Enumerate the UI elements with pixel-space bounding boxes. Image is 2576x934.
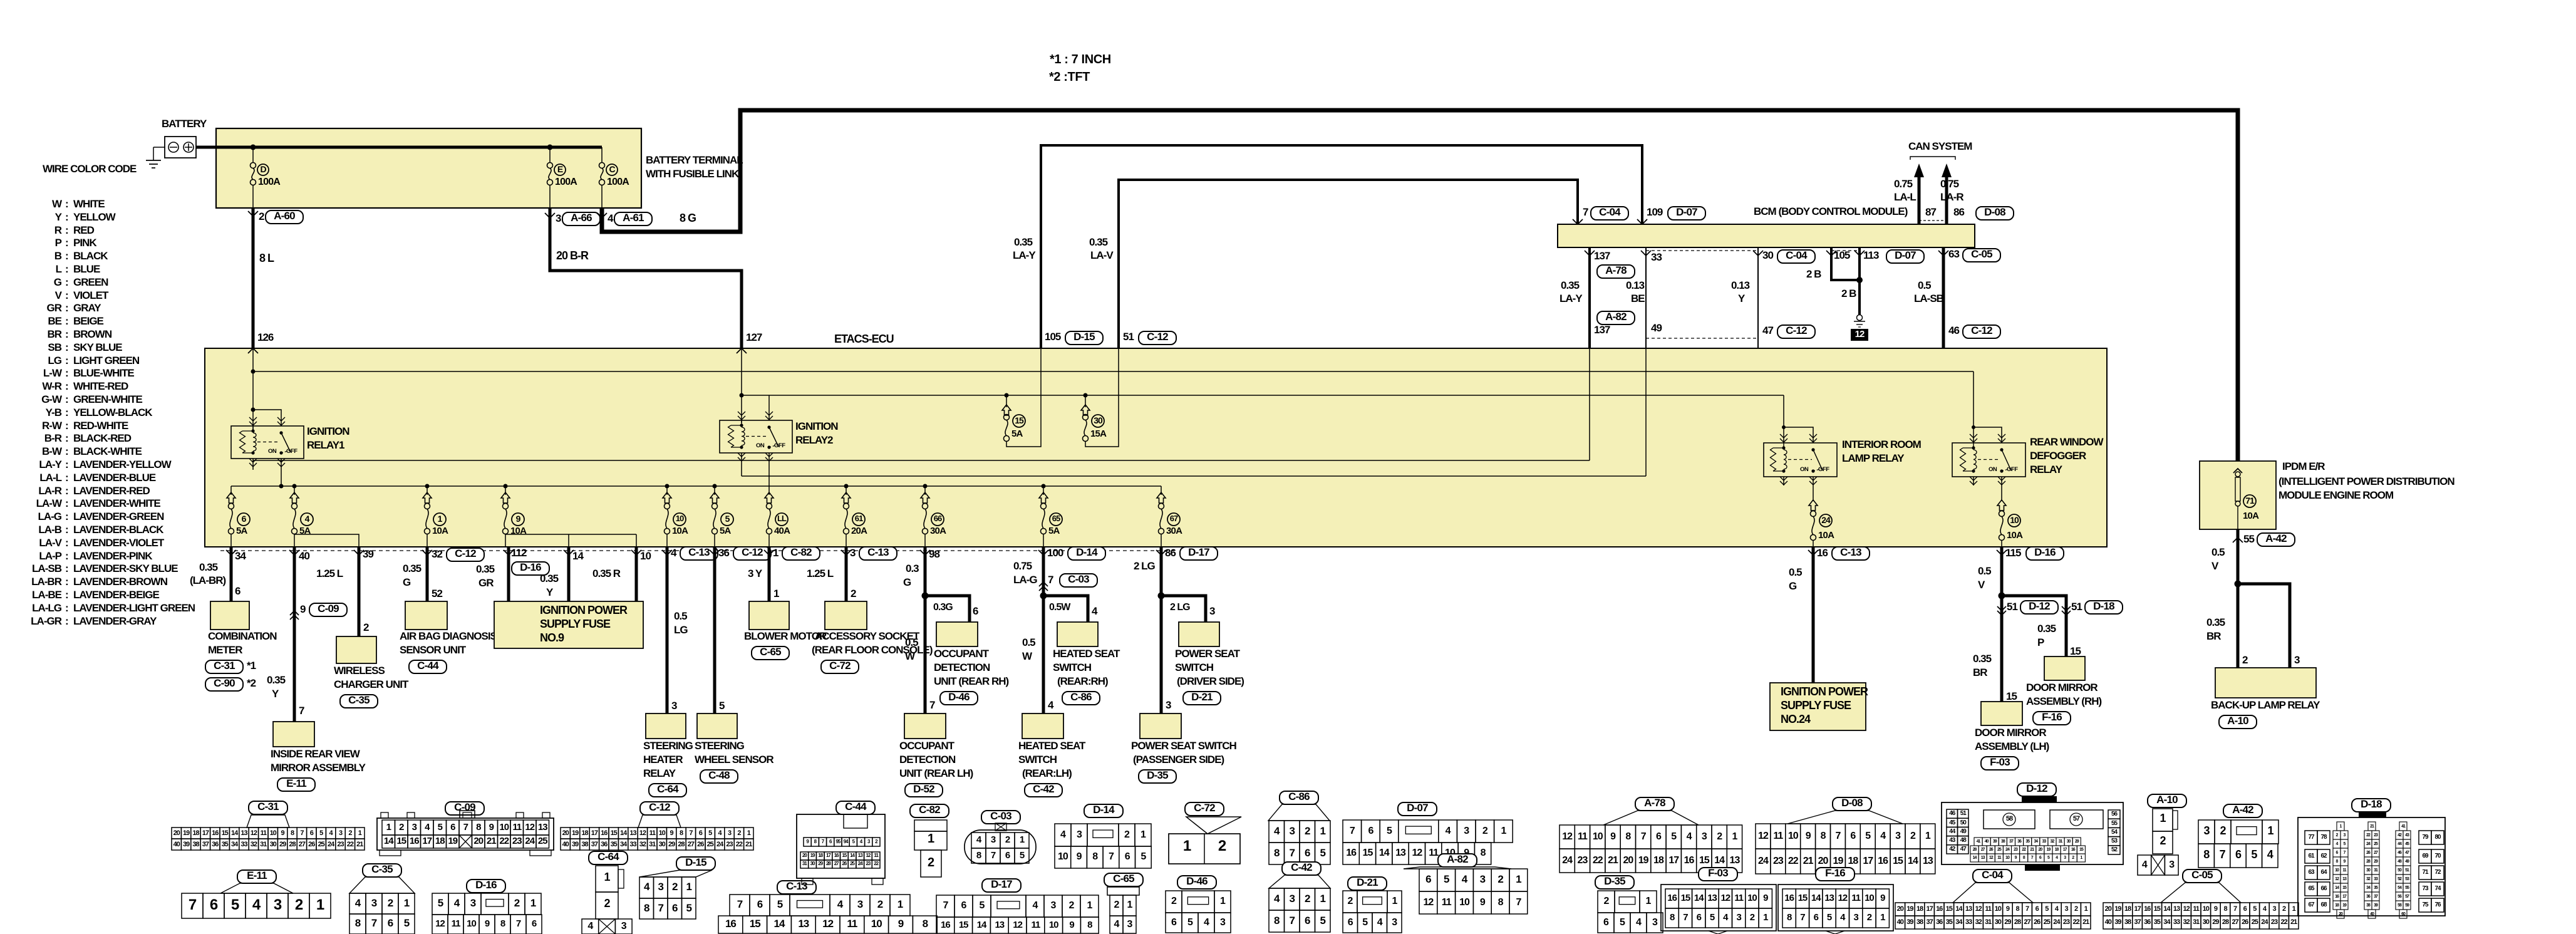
svg-text:C-72: C-72: [829, 660, 851, 672]
steering wheel sensor: [697, 713, 737, 739]
svg-text:D-16: D-16: [2034, 546, 2056, 558]
svg-text:SB: SB: [48, 341, 61, 353]
fuse 61 20A: [846, 486, 847, 495]
pin 105 D-15: [1036, 348, 1046, 353]
svg-text:9: 9: [1763, 893, 1768, 903]
svg-text:51: 51: [1123, 331, 1134, 343]
wire 0.35 LA-V 51 to 7: [1119, 180, 1578, 348]
svg-text:26: 26: [2242, 918, 2248, 926]
ETACS pin 34: [226, 550, 236, 555]
BCM pin 137 wire 0.35 LA-Y to ETACS: [1588, 247, 1591, 348]
svg-text:1: 1: [773, 588, 779, 599]
svg-text:8: 8: [680, 829, 683, 837]
svg-text:ON: ON: [268, 448, 277, 455]
wireless charger unit: [336, 636, 376, 663]
svg-text::: :: [65, 341, 68, 353]
svg-text:LAVENDER-YELLOW: LAVENDER-YELLOW: [73, 459, 172, 470]
svg-text:POWER SEAT: POWER SEAT: [1175, 648, 1241, 660]
pin 2 A-60: [248, 211, 258, 216]
svg-text:BE: BE: [1631, 293, 1645, 304]
fuse 6 5A: [230, 486, 232, 495]
svg-text:40: 40: [2105, 918, 2112, 926]
svg-text:GRAY: GRAY: [73, 302, 101, 314]
svg-text:NO.9: NO.9: [540, 631, 564, 644]
svg-text:LAMP RELAY: LAMP RELAY: [1842, 452, 1905, 464]
svg-text:20 B-R: 20 B-R: [556, 249, 589, 262]
connector boundary dashed line: [220, 550, 1174, 551]
svg-text:MODULE ENGINE ROOM: MODULE ENGINE ROOM: [2279, 489, 2394, 501]
svg-text:LA-B: LA-B: [38, 524, 61, 536]
svg-text:8: 8: [1498, 897, 1504, 908]
svg-text:9: 9: [281, 829, 285, 837]
pin 3 A-66: [545, 213, 555, 218]
svg-text:6: 6: [1656, 831, 1662, 842]
svg-text:3: 3: [1652, 917, 1658, 928]
svg-text:15: 15: [2006, 690, 2017, 702]
svg-text:4: 4: [1114, 919, 1120, 930]
svg-text:3: 3: [1166, 699, 1171, 711]
svg-text:ACCESSORY SOCKET: ACCESSORY SOCKET: [815, 630, 920, 642]
svg-text:16: 16: [601, 829, 608, 837]
svg-text:2: 2: [295, 896, 303, 913]
svg-text:12: 12: [822, 918, 833, 930]
svg-text:23: 23: [2271, 918, 2278, 926]
svg-text:23: 23: [726, 841, 733, 848]
ETACS pin 36: [710, 550, 720, 555]
svg-text:BCM (BODY CONTROL MODULE): BCM (BODY CONTROL MODULE): [1754, 205, 1908, 217]
svg-text:6: 6: [1125, 851, 1130, 862]
svg-text:2: 2: [1114, 900, 1120, 910]
relay2 switch feed: [768, 395, 770, 420]
svg-text:CHARGER UNIT: CHARGER UNIT: [334, 678, 409, 690]
svg-text:D-07: D-07: [1895, 249, 1916, 261]
ETACS pin 39: [354, 550, 364, 555]
ground at battery: [153, 147, 165, 148]
svg-text:10A: 10A: [672, 526, 688, 536]
svg-text:V: V: [2211, 560, 2219, 572]
svg-text:10: 10: [1593, 831, 1603, 842]
pin 126: [248, 348, 258, 353]
svg-text:0.13: 0.13: [1626, 279, 1645, 291]
svg-text:32: 32: [2183, 918, 2190, 926]
svg-text:W: W: [52, 198, 63, 210]
svg-text:3: 3: [1392, 917, 1397, 928]
relay2 coil stub to R3b: [741, 453, 742, 476]
svg-text:D-12: D-12: [2026, 782, 2047, 794]
svg-text:27: 27: [299, 841, 306, 848]
svg-text:P: P: [2037, 636, 2044, 648]
svg-text:7: 7: [737, 898, 743, 910]
svg-text:2: 2: [2074, 905, 2078, 913]
svg-text:LA-G: LA-G: [38, 511, 61, 522]
svg-text:6: 6: [1697, 912, 1702, 923]
svg-text:LA-R: LA-R: [1940, 191, 1963, 203]
svg-text:2: 2: [1604, 896, 1610, 906]
svg-text:0.35: 0.35: [1014, 236, 1033, 248]
wire 0.5 G ignition power supply fuse no 24: [1812, 547, 1815, 683]
svg-text:3: 3: [1220, 917, 1226, 928]
svg-text:COMBINATION: COMBINATION: [208, 630, 277, 642]
ground 12: [1857, 315, 1863, 321]
svg-text:55: 55: [2111, 820, 2118, 827]
svg-text:21: 21: [2082, 918, 2089, 926]
svg-text:1: 1: [1516, 873, 1521, 885]
connector C-42 pin diagram: [1282, 862, 1321, 875]
svg-text:LA-SB: LA-SB: [1914, 293, 1944, 304]
svg-text:6: 6: [235, 585, 241, 597]
ETACS pin 86: [1156, 550, 1166, 555]
wire 0.3 G occupant detection: [924, 547, 927, 713]
fuse 67 30A: [1161, 486, 1162, 495]
svg-text:13: 13: [629, 829, 636, 837]
svg-text:14: 14: [1379, 848, 1390, 858]
svg-text:2: 2: [1171, 896, 1177, 906]
wire 0.35 Y to inside rear view mirror: [293, 547, 296, 722]
svg-text:19: 19: [572, 829, 579, 837]
svg-text:27: 27: [2024, 918, 2030, 926]
fuse LL 40A: [768, 486, 770, 495]
svg-text:C-90: C-90: [214, 677, 235, 689]
svg-text:BLUE: BLUE: [73, 263, 100, 275]
svg-text:38: 38: [192, 841, 199, 848]
svg-text:31: 31: [649, 841, 656, 848]
svg-text:53: 53: [2111, 838, 2118, 844]
svg-text:1: 1: [1087, 900, 1093, 911]
svg-text:37: 37: [202, 841, 209, 848]
svg-text:STEERING: STEERING: [643, 740, 693, 752]
svg-text:58: 58: [2006, 815, 2013, 822]
svg-text:RELAY1: RELAY1: [307, 439, 344, 451]
svg-text:D-46: D-46: [948, 691, 970, 703]
svg-text:30: 30: [270, 841, 277, 848]
svg-text:17: 17: [2134, 905, 2141, 913]
svg-text:42: 42: [1949, 846, 1956, 853]
svg-text:1: 1: [1732, 831, 1737, 842]
svg-text:OCCUPANT: OCCUPANT: [899, 740, 955, 752]
svg-text:36: 36: [718, 547, 729, 559]
svg-text:LA-LG: LA-LG: [32, 602, 62, 614]
svg-text:2: 2: [1750, 912, 1755, 923]
svg-text:6: 6: [1814, 912, 1819, 923]
svg-text:8: 8: [500, 918, 505, 929]
svg-text:20: 20: [473, 836, 483, 846]
svg-text:WHITE-RED: WHITE-RED: [73, 380, 128, 392]
svg-text:86: 86: [1953, 206, 1964, 218]
svg-text:D-07: D-07: [1407, 802, 1428, 814]
battery terminal yellow box: [216, 128, 641, 208]
svg-text:22: 22: [2072, 918, 2079, 926]
svg-text:6: 6: [1005, 850, 1010, 861]
svg-text:C-12: C-12: [649, 801, 670, 813]
svg-text:1: 1: [316, 896, 324, 913]
svg-text:8: 8: [1670, 912, 1675, 923]
svg-text:8: 8: [923, 918, 928, 930]
svg-text:63: 63: [2308, 869, 2315, 876]
svg-text:Y: Y: [1738, 293, 1746, 304]
svg-text:18: 18: [1848, 856, 1858, 866]
svg-text:SWITCH: SWITCH: [1018, 754, 1057, 765]
svg-text:LA-GR: LA-GR: [31, 615, 62, 627]
svg-text:INTERIOR ROOM: INTERIOR ROOM: [1842, 438, 1922, 450]
svg-text:7: 7: [1290, 915, 1295, 926]
BCM body control module box: [1558, 224, 1975, 247]
svg-text:64: 64: [2320, 869, 2327, 876]
svg-text:11: 11: [1734, 893, 1744, 903]
connector D-15 pin diagram: [676, 857, 715, 870]
svg-text:1: 1: [386, 822, 391, 833]
svg-text::: :: [65, 485, 68, 497]
svg-text::: :: [65, 211, 68, 223]
svg-text:1: 1: [2267, 824, 2273, 837]
svg-text:A-66: A-66: [571, 212, 592, 224]
svg-text:1: 1: [686, 881, 692, 893]
svg-text::: :: [65, 472, 68, 484]
svg-text:32: 32: [1975, 918, 1982, 926]
svg-text:30: 30: [1995, 918, 2002, 926]
svg-text:IGNITION: IGNITION: [307, 425, 349, 437]
svg-text:14: 14: [1714, 855, 1725, 866]
svg-text:2: 2: [2220, 824, 2226, 837]
door mirror assembly RH: [2044, 656, 2085, 680]
svg-text::: :: [65, 224, 68, 236]
svg-text:1: 1: [773, 547, 778, 559]
svg-text::: :: [65, 315, 68, 327]
svg-text:7: 7: [689, 829, 693, 837]
svg-text:9: 9: [1480, 897, 1486, 908]
svg-text:34: 34: [235, 550, 246, 562]
svg-text:B: B: [54, 250, 62, 262]
connector A-42 pin diagram: [2223, 804, 2262, 817]
ignition relay1: [231, 426, 304, 459]
svg-text:1: 1: [530, 897, 536, 909]
svg-text:13: 13: [995, 920, 1004, 930]
svg-text:D-46: D-46: [1186, 875, 1208, 887]
svg-text:2: 2: [348, 829, 352, 837]
svg-text:3: 3: [1290, 893, 1295, 905]
svg-text:RELAY2: RELAY2: [795, 434, 833, 446]
connector D-46 pin diagram: [1177, 876, 1216, 889]
svg-text:D-08: D-08: [1841, 797, 1863, 809]
svg-text::: :: [65, 237, 68, 249]
svg-text:D-35: D-35: [1604, 875, 1625, 887]
svg-text:3: 3: [2294, 654, 2300, 666]
fuse 71 10A in IPDM: [2235, 472, 2240, 477]
svg-text:8 L: 8 L: [259, 252, 274, 264]
wire 0.35 LA-Y 105 to 109: [1041, 145, 1642, 348]
svg-text:F-03: F-03: [1990, 756, 2010, 768]
svg-text:7: 7: [2220, 848, 2226, 861]
svg-text:A-78: A-78: [1605, 264, 1627, 276]
svg-text::: :: [65, 615, 68, 627]
svg-text:0.5: 0.5: [2211, 546, 2225, 558]
connector C-64 pin diagram: [589, 851, 628, 864]
svg-text:15: 15: [1946, 905, 1953, 913]
svg-text:15: 15: [750, 918, 760, 930]
connector F-03 pin diagram: [1699, 868, 1737, 881]
svg-text:(PASSENGER SIDE): (PASSENGER SIDE): [1133, 754, 1224, 765]
svg-text:50: 50: [1960, 819, 1967, 826]
svg-text:6: 6: [1603, 917, 1609, 928]
svg-text:3 Y: 3 Y: [748, 568, 763, 579]
svg-text:3: 3: [728, 829, 732, 837]
svg-text:IGNITION POWER: IGNITION POWER: [540, 604, 628, 616]
svg-text:61: 61: [855, 514, 863, 523]
svg-text:8: 8: [1625, 831, 1631, 842]
svg-text:26: 26: [308, 841, 315, 848]
svg-text:5: 5: [404, 917, 410, 929]
svg-text:D-07: D-07: [1676, 206, 1697, 218]
svg-text:10: 10: [640, 550, 651, 562]
svg-text:4: 4: [1033, 900, 1038, 911]
svg-text:3: 3: [371, 897, 377, 909]
svg-text:3: 3: [2064, 905, 2068, 913]
svg-text:1: 1: [1501, 826, 1506, 836]
svg-text:A-82: A-82: [1605, 311, 1627, 323]
svg-text:15: 15: [222, 829, 229, 837]
svg-text:22: 22: [1593, 855, 1603, 866]
svg-text:38: 38: [581, 841, 588, 848]
svg-text:10: 10: [1049, 920, 1058, 930]
svg-text:2: 2: [1005, 834, 1010, 845]
svg-text:24: 24: [1562, 855, 1573, 866]
fuse 9 sub-branch to pins 14 10: [505, 534, 636, 535]
svg-text:76: 76: [2434, 901, 2441, 908]
svg-text:RED: RED: [73, 224, 95, 236]
svg-text:LA-Y: LA-Y: [1013, 249, 1036, 261]
svg-text:16: 16: [725, 918, 736, 930]
svg-text:3: 3: [1702, 831, 1707, 842]
svg-text:15: 15: [1363, 848, 1373, 858]
svg-text::: :: [65, 393, 68, 405]
wire 2 LG power seat: [1160, 547, 1163, 713]
svg-text:2: 2: [1069, 900, 1075, 911]
svg-text:6: 6: [699, 829, 703, 837]
svg-text:10: 10: [871, 918, 882, 930]
svg-text:C-35: C-35: [348, 694, 370, 706]
svg-text:D-14: D-14: [1076, 546, 1098, 558]
svg-text:1: 1: [2084, 905, 2088, 913]
svg-text:11: 11: [2193, 905, 2200, 913]
svg-text:9: 9: [489, 822, 494, 833]
svg-text:69: 69: [2422, 853, 2429, 859]
svg-text:10: 10: [270, 829, 277, 837]
svg-text:14: 14: [384, 836, 394, 846]
svg-text:4: 4: [1060, 829, 1066, 840]
svg-text:7: 7: [516, 918, 521, 929]
svg-text:WHITE: WHITE: [73, 198, 105, 210]
svg-text:POWER SEAT SWITCH: POWER SEAT SWITCH: [1131, 740, 1237, 752]
svg-text:7: 7: [1800, 912, 1805, 923]
svg-text:6: 6: [1305, 847, 1310, 859]
svg-text:29: 29: [279, 841, 286, 848]
svg-text:C-44: C-44: [845, 801, 867, 812]
svg-text:0.75: 0.75: [1894, 178, 1913, 190]
svg-text:G-W: G-W: [41, 393, 63, 405]
svg-text:27: 27: [688, 841, 695, 848]
svg-text:8: 8: [1481, 848, 1486, 858]
svg-text:CAN SYSTEM: CAN SYSTEM: [1908, 140, 1972, 152]
svg-text:25: 25: [538, 836, 547, 846]
svg-text:6: 6: [757, 898, 763, 910]
svg-text:IGNITION: IGNITION: [795, 420, 838, 432]
svg-text:5: 5: [1671, 831, 1677, 842]
svg-text:8: 8: [291, 829, 294, 837]
svg-text:11: 11: [260, 829, 267, 837]
svg-text:22: 22: [2280, 918, 2287, 926]
svg-text:REAR WINDOW: REAR WINDOW: [2030, 436, 2104, 448]
svg-text:LG: LG: [674, 624, 688, 636]
wire to steering wheel sensor: [713, 547, 716, 713]
svg-text::: :: [65, 328, 68, 340]
svg-text:SUPPLY FUSE: SUPPLY FUSE: [540, 618, 611, 630]
svg-text:D-35: D-35: [1147, 769, 1168, 781]
svg-text::: :: [65, 367, 68, 379]
svg-text:19: 19: [448, 836, 457, 846]
svg-text:WHEEL SENSOR: WHEEL SENSOR: [695, 754, 773, 765]
svg-text:11: 11: [1985, 905, 1992, 913]
svg-text:C-12: C-12: [1786, 324, 1807, 336]
svg-text:19: 19: [1906, 905, 1913, 913]
svg-text:87: 87: [1925, 206, 1936, 218]
svg-text:100A: 100A: [607, 177, 629, 187]
svg-text:44: 44: [1949, 828, 1956, 835]
svg-text:Y: Y: [546, 586, 554, 598]
svg-text:WITH FUSIBLE LINK: WITH FUSIBLE LINK: [646, 168, 740, 180]
svg-text:Y: Y: [55, 211, 63, 223]
svg-text:86: 86: [1165, 547, 1176, 559]
BCM pin 30 wire 0.13 Y: [1757, 247, 1759, 348]
svg-text:22: 22: [1788, 856, 1799, 866]
svg-text:C-35: C-35: [371, 863, 393, 875]
svg-text:2: 2: [259, 210, 264, 222]
svg-text:C-86: C-86: [1288, 791, 1310, 802]
svg-text:33: 33: [629, 841, 636, 848]
svg-text:113: 113: [1863, 249, 1879, 261]
svg-text:DETECTION: DETECTION: [934, 662, 990, 673]
svg-text:4: 4: [587, 921, 593, 931]
accessory socket: [825, 601, 867, 630]
svg-text:3: 3: [1127, 919, 1133, 930]
svg-text:C-04: C-04: [1982, 869, 2004, 881]
fuse 10 10A: [666, 486, 668, 495]
svg-text:5: 5: [686, 902, 692, 914]
svg-text:29: 29: [668, 841, 675, 848]
svg-text:105: 105: [1834, 249, 1850, 261]
BCM pin 63 wire 0.5 LA-SB: [1942, 247, 1945, 348]
rear window defogger relay: [1952, 443, 2025, 477]
connector D-18 pin diagram: [2352, 799, 2391, 812]
ETACS pin 14: [564, 550, 574, 555]
pin 55 A-42: [2233, 537, 2243, 542]
svg-text:10: 10: [1865, 893, 1874, 903]
svg-text:C-05: C-05: [1971, 248, 1992, 260]
svg-text:28: 28: [2222, 918, 2229, 926]
svg-text:9: 9: [1610, 831, 1616, 842]
svg-text:R: R: [54, 224, 62, 236]
svg-text:1.25 L: 1.25 L: [316, 568, 343, 579]
svg-text:G: G: [1789, 580, 1797, 592]
svg-text:16: 16: [410, 836, 419, 846]
svg-text:78: 78: [2320, 834, 2327, 841]
svg-text:6: 6: [242, 514, 247, 524]
svg-text:0.35: 0.35: [1561, 279, 1580, 291]
svg-text:4: 4: [1687, 831, 1692, 842]
svg-text:4: 4: [1446, 826, 1451, 836]
svg-text:C-05: C-05: [2191, 869, 2213, 881]
svg-text:INSIDE REAR VIEW: INSIDE REAR VIEW: [271, 748, 361, 760]
svg-text:15: 15: [2070, 645, 2081, 657]
ETACS pin 98: [920, 550, 930, 555]
